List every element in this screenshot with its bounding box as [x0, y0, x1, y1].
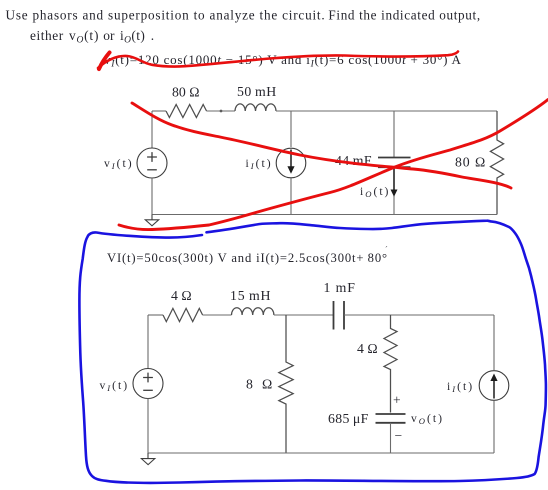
svg-text:vO(t): vO(t) [69, 28, 99, 46]
current source iI circle (bottom circuit) [479, 371, 509, 401]
wire capacitor branch lower [393, 167, 395, 214]
wire current-source branch lower [290, 178, 292, 215]
svg-text:+: + [393, 393, 401, 408]
wire top-left segment (bottom circuit) [148, 314, 163, 316]
resistor 8ohm branch [279, 315, 293, 453]
wire left branch lower [151, 178, 153, 215]
red X stroke (descending) over top circuit [132, 103, 511, 188]
resistor 80ohm right (vertical) [490, 111, 503, 215]
blue enclosure main loop [79, 221, 546, 483]
svg-text:either: either [30, 28, 64, 43]
current source arrow (down) [287, 150, 294, 174]
svg-text:8: 8 [246, 377, 253, 392]
svg-text:15 mH: 15 mH [230, 288, 271, 303]
node dot [220, 110, 223, 113]
svg-text:1 mF: 1 mF [324, 280, 356, 295]
svg-text:Ω: Ω [262, 377, 272, 392]
wire left branch upper [151, 111, 153, 148]
svg-text:VI(t)=50cos(300t) V and iI(t)=: VI(t)=50cos(300t) V and iI(t)=2.5cos(300… [107, 251, 388, 265]
svg-text:.: . [151, 28, 154, 43]
svg-text:4 Ω: 4 Ω [357, 341, 378, 356]
svg-text:50 mH: 50 mH [237, 84, 277, 99]
inductor 50mH [235, 104, 276, 111]
wire right branch upper (bottom circuit) [493, 315, 495, 370]
capacitor 1mF plates (vertical) [334, 301, 345, 330]
svg-text:Use phasors and superposition: Use phasors and superposition to analyze… [6, 8, 326, 23]
svg-text:−: − [395, 428, 403, 443]
output current arrow iO (down) [391, 168, 398, 197]
svg-text:iI(t): iI(t) [447, 380, 474, 394]
wire inductor to capacitor [274, 314, 334, 316]
resistor 4ohm (top) [163, 308, 203, 321]
minus sign of source [143, 389, 153, 391]
inductor 15mH [232, 308, 274, 315]
current source iI circle (top circuit) [276, 148, 306, 178]
voltage source vI circle (top circuit) [137, 148, 167, 178]
resistor 4ohm vertical + wire [384, 315, 397, 413]
svg-text:80 Ω: 80 Ω [455, 155, 486, 170]
svg-text:4 Ω: 4 Ω [171, 288, 192, 303]
capacitor 685uF plates [376, 414, 406, 423]
svg-text:´: ´ [385, 245, 388, 254]
ground (top circuit) [145, 215, 158, 226]
svg-text:vI(t): vI(t) [100, 379, 130, 393]
wire between resistor and inductor [207, 110, 236, 112]
wire left branch upper (bottom circuit) [147, 315, 149, 369]
svg-text:vI(t): vI(t) [104, 157, 134, 171]
svg-text:iI(t): iI(t) [246, 157, 273, 171]
plus sign of source [143, 373, 153, 383]
svg-text:iO(t): iO(t) [120, 28, 145, 46]
resistor R 80ohm (top) [166, 105, 207, 118]
bottom wire (bottom circuit) [148, 452, 494, 454]
minus sign of source [147, 169, 157, 171]
wire top-left segment [152, 110, 166, 112]
ground (bottom circuit) [141, 453, 154, 465]
voltage source vI circle (bottom circuit) [133, 369, 163, 399]
wire below 685uF capacitor [390, 423, 392, 453]
wire resistor to inductor [203, 314, 232, 316]
plus sign of source [147, 152, 157, 162]
wire right branch lower (bottom circuit) [493, 401, 495, 453]
bottom wire [152, 214, 497, 216]
wire current-source branch upper [290, 111, 292, 147]
svg-text:vO(t): vO(t) [411, 412, 444, 426]
red slash over vI(t) in equation [99, 53, 110, 70]
svg-text:iO(t): iO(t) [360, 185, 390, 199]
capacitor 44mF plates [378, 158, 411, 168]
wire capacitor branch upper [393, 111, 395, 158]
svg-text:or: or [103, 28, 115, 43]
red X stroke (ascending) over top circuit [119, 100, 548, 230]
wire left branch lower (bottom circuit) [147, 399, 149, 454]
svg-text:80 Ω: 80 Ω [172, 85, 200, 100]
current source arrow (up) [490, 374, 497, 399]
wire inductor to right corner [276, 110, 497, 112]
wire capacitor to right corner [344, 314, 494, 316]
red strikethrough of equation line [98, 52, 458, 69]
svg-text:685 μF: 685 μF [328, 411, 369, 426]
svg-text:Find the indicated output,: Find the indicated output, [328, 8, 480, 23]
